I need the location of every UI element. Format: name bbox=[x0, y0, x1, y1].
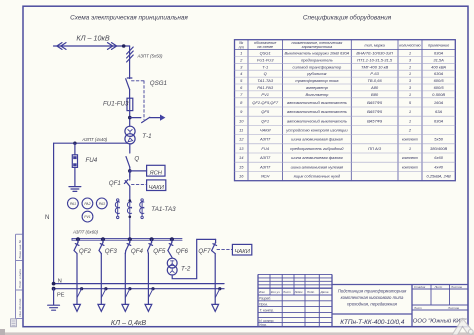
svg-text:КЛ – 0,4кВ: КЛ – 0,4кВ bbox=[111, 318, 147, 327]
svg-text:ЯСН: ЯСН bbox=[149, 170, 163, 176]
node QF3 bbox=[101, 237, 105, 241]
node QF6 bbox=[170, 237, 174, 241]
svg-text:РА1: РА1 bbox=[70, 202, 76, 206]
title block grid bbox=[258, 274, 468, 326]
switch Q bbox=[129, 144, 131, 153]
svg-text:Вольтметр: Вольтметр bbox=[305, 92, 329, 97]
svg-text:Подп.: Подп. bbox=[307, 290, 315, 294]
title block texts bbox=[259, 285, 462, 327]
row 13 FU4 bbox=[239, 146, 448, 151]
cable chevrons left bbox=[61, 43, 66, 50]
wire: FU4 to ground bbox=[74, 167, 76, 186]
svg-text:комплект: комплект bbox=[402, 156, 418, 160]
svg-text:Подстанция трансформаторная: Подстанция трансформаторная bbox=[338, 289, 407, 294]
watermark tile bottom-left bbox=[11, 319, 17, 327]
svg-text:РА1-РА3: РА1-РА3 bbox=[257, 85, 274, 90]
svg-text:силовой трансформатор: силовой трансформатор bbox=[293, 64, 342, 69]
svg-text:Пров.: Пров. bbox=[259, 303, 268, 307]
node QF4 bbox=[128, 237, 132, 241]
svg-text:400 кВА: 400 кВА bbox=[431, 64, 446, 69]
svg-text:FU4: FU4 bbox=[261, 146, 269, 151]
svg-text:ВА57Ф9: ВА57Ф9 bbox=[367, 118, 383, 123]
wire: QSG1 to fuse bbox=[129, 90, 131, 99]
svg-text:1: 1 bbox=[240, 51, 242, 56]
svg-text:5х50: 5х50 bbox=[434, 137, 443, 142]
breaker QF7 bbox=[215, 239, 217, 242]
feeder arrow 1 bbox=[74, 304, 81, 311]
svg-text:N: N bbox=[58, 279, 62, 285]
svg-text:1: 1 bbox=[409, 92, 411, 97]
svg-text:Т-1: Т-1 bbox=[142, 133, 151, 140]
svg-text:ЧАКИ: ЧАКИ bbox=[149, 185, 165, 191]
svg-text:комплект: комплект bbox=[402, 138, 418, 142]
PE tap feeder 4 bbox=[151, 287, 154, 290]
svg-text:4х40: 4х40 bbox=[434, 164, 443, 169]
svg-text:31,5А: 31,5А bbox=[433, 57, 444, 62]
circuit breaker QF1 bbox=[129, 171, 131, 180]
svg-text:ЯСН: ЯСН bbox=[260, 174, 270, 179]
svg-text:АЗПТ (4х40): АЗПТ (4х40) bbox=[81, 137, 107, 142]
svg-text:А80: А80 bbox=[370, 85, 379, 90]
left strip rotated labels bbox=[18, 239, 22, 316]
main ground bbox=[48, 304, 60, 306]
svg-text:ТА1-ТА3: ТА1-ТА3 bbox=[257, 78, 274, 83]
fuse FU4 bbox=[74, 143, 76, 155]
wire: 0.4kV branch АЗПТ (4х40) bbox=[54, 142, 128, 144]
svg-text:630А: 630А bbox=[434, 51, 444, 56]
svg-text:ящик собственных нужд: ящик собственных нужд bbox=[293, 174, 341, 179]
svg-text:1: 1 bbox=[409, 109, 411, 114]
svg-text:11: 11 bbox=[239, 128, 243, 133]
svg-text:АЗПТ (6х60): АЗПТ (6х60) bbox=[72, 230, 98, 235]
svg-text:Листов: Листов bbox=[450, 285, 462, 289]
box ЧАКИ (right) bbox=[232, 244, 251, 255]
svg-text:Т-2: Т-2 bbox=[181, 266, 191, 273]
row 14 АЗПТ bbox=[239, 155, 444, 160]
svg-text:1: 1 bbox=[409, 64, 411, 69]
svg-text:автоматический выключатель: автоматический выключатель bbox=[287, 118, 347, 123]
revision rows (upper-left) bbox=[258, 273, 332, 275]
QSG1 mechanical link (dashed) bbox=[132, 81, 145, 120]
svg-text:FU1-FU3: FU1-FU3 bbox=[103, 100, 129, 107]
PE tap feeder 2 bbox=[104, 287, 107, 290]
svg-text:ТВ-0,66: ТВ-0,66 bbox=[367, 78, 382, 83]
node: 10kV junction before T-1 bbox=[128, 116, 132, 120]
ammeter PA1 bbox=[68, 198, 79, 209]
row 6 PA1-PA3 bbox=[240, 85, 444, 90]
svg-text:Лист: Лист bbox=[282, 290, 291, 294]
svg-text:1: 1 bbox=[409, 118, 411, 123]
svg-text:Изм: Изм bbox=[259, 290, 265, 294]
wire: T-2 to QF7 riser bbox=[172, 239, 215, 278]
wire: PEN to ground bbox=[53, 289, 55, 305]
svg-text:ПП А/3: ПП А/3 bbox=[368, 146, 382, 151]
svg-text:шина алюминиевая фазная: шина алюминиевая фазная bbox=[291, 137, 343, 142]
svg-text:QF7: QF7 bbox=[198, 248, 211, 255]
wire: to ЯСН box bbox=[130, 170, 147, 172]
svg-text:Листов: Листов bbox=[447, 306, 459, 310]
row 7 PV1 bbox=[240, 92, 445, 97]
svg-text:автоматический выключатель: автоматический выключатель bbox=[287, 109, 347, 114]
svg-text:трансформатор тока: трансформатор тока bbox=[295, 78, 339, 83]
svg-text:проходная, передвижная: проходная, передвижная bbox=[347, 302, 398, 307]
svg-text:АЗПТ (5х50): АЗПТ (5х50) bbox=[137, 54, 163, 59]
svg-text:КЛ – 10кВ: КЛ – 10кВ bbox=[76, 33, 110, 42]
svg-text:ЧАКИ: ЧАКИ bbox=[235, 249, 251, 255]
row 9 QF6 bbox=[240, 109, 442, 114]
row 15 АЗПТ bbox=[239, 164, 444, 169]
breaker QF3 bbox=[102, 239, 104, 242]
svg-text:QF1: QF1 bbox=[261, 118, 269, 123]
specification table grid bbox=[235, 40, 456, 181]
svg-text:0-500В: 0-500В bbox=[432, 92, 445, 97]
svg-text:ВНА/ТЕ-10/630-3зП: ВНА/ТЕ-10/630-3зП bbox=[356, 51, 392, 56]
svg-text:QF1: QF1 bbox=[109, 180, 121, 187]
box ЯСН bbox=[147, 165, 165, 176]
svg-text:рубильник: рубильник bbox=[306, 71, 327, 76]
svg-text:15: 15 bbox=[239, 164, 244, 169]
svg-text:Q: Q bbox=[264, 71, 267, 76]
svg-text:630А: 630А bbox=[434, 118, 444, 123]
svg-text:амперметр: амперметр bbox=[306, 85, 329, 90]
box ЧАКИ bbox=[147, 180, 166, 191]
svg-text:630А: 630А bbox=[434, 71, 444, 76]
svg-text:Инв. № подл.: Инв. № подл. bbox=[18, 298, 22, 317]
feeder arrow 3 bbox=[122, 304, 129, 311]
ammeter PA3 bbox=[96, 198, 107, 209]
row 4 Q bbox=[240, 71, 444, 76]
ammeter PA2 bbox=[82, 198, 93, 209]
row 16 ЯСН bbox=[239, 174, 451, 179]
table rows text bbox=[239, 51, 451, 179]
svg-text:160А: 160А bbox=[434, 100, 444, 105]
svg-text:0,25кВА, 24В: 0,25кВА, 24В bbox=[426, 174, 451, 179]
node QF2 bbox=[76, 237, 80, 241]
busbar hatch АЗПТ (5х50) bbox=[127, 51, 134, 58]
svg-text:ЧАКИ: ЧАКИ bbox=[260, 128, 271, 133]
svg-text:Спецификация оборудования: Спецификация оборудования bbox=[303, 14, 392, 22]
svg-text:тип, марка: тип, марка bbox=[364, 43, 384, 47]
fuse FU1-FU3 bbox=[127, 98, 133, 110]
svg-text:Разраб.: Разраб. bbox=[259, 297, 271, 301]
svg-text:№док: №док bbox=[295, 290, 304, 294]
svg-text:6х60: 6х60 bbox=[434, 155, 443, 160]
row 3 T-1 bbox=[240, 64, 446, 69]
table header text bbox=[239, 41, 450, 49]
breaker QF4 bbox=[129, 239, 131, 242]
svg-text:КТПн-Т-КК-400-10/0,4: КТПн-Т-КК-400-10/0,4 bbox=[340, 319, 405, 326]
breaker QF5 bbox=[151, 239, 153, 242]
svg-text:ТА1-ТА3: ТА1-ТА3 bbox=[151, 206, 176, 213]
svg-text:Лист: Лист bbox=[434, 285, 443, 289]
node QF5 bbox=[150, 237, 154, 241]
svg-text:600/5: 600/5 bbox=[434, 78, 445, 83]
svg-text:устройство контроля изоляции: устройство контроля изоляции bbox=[285, 128, 348, 133]
node: junction to ЯСН bbox=[128, 169, 132, 173]
svg-text:12: 12 bbox=[239, 137, 244, 142]
schematic text labels bbox=[45, 33, 251, 327]
svg-text:QF5: QF5 bbox=[261, 109, 270, 114]
row 5 TA1-TA3 bbox=[240, 78, 444, 83]
svg-text:PV1: PV1 bbox=[84, 215, 91, 219]
svg-text:380/400В: 380/400В bbox=[430, 146, 447, 151]
QF7 link to ЧАКИ (dashed) bbox=[217, 249, 232, 251]
signature rows bbox=[258, 294, 332, 296]
svg-text:14: 14 bbox=[239, 155, 244, 160]
current transformers ТА1-ТА3 bbox=[115, 199, 144, 240]
svg-text:1: 1 bbox=[409, 71, 411, 76]
svg-text:на схеме: на схеме bbox=[257, 45, 273, 49]
bottom paper-edge shadow bbox=[4, 332, 474, 335]
row 11 ЧАКИ bbox=[239, 128, 412, 133]
0.4kV busbar АЗПТ (6х60) double line bbox=[72, 237, 182, 239]
svg-text:количество: количество bbox=[399, 43, 420, 47]
feeder arrow 4 bbox=[145, 304, 152, 311]
ground under FU4 bbox=[69, 186, 81, 188]
feeder arrow 5 bbox=[212, 304, 219, 311]
svg-text:63А: 63А bbox=[435, 109, 442, 114]
svg-text:Кол.уч: Кол.уч bbox=[271, 290, 280, 294]
transformer T-2 bbox=[167, 258, 177, 268]
transformer T-1 bbox=[125, 126, 135, 136]
svg-text:1: 1 bbox=[409, 146, 411, 151]
row 1 QSG1 bbox=[240, 51, 444, 56]
PE bus bbox=[54, 288, 224, 290]
feeder arrow 2 bbox=[98, 304, 105, 311]
svg-text:QF6: QF6 bbox=[176, 248, 189, 255]
svg-text:АЗПТ: АЗПТ bbox=[259, 155, 271, 160]
centre/right top edge bbox=[332, 284, 468, 286]
svg-text:ВА57Ф5: ВА57Ф5 bbox=[367, 100, 383, 105]
svg-text:FU4: FU4 bbox=[86, 157, 98, 164]
svg-text:АЗПТ: АЗПТ bbox=[259, 164, 271, 169]
watermark chevron bottom-right bbox=[452, 319, 473, 335]
svg-text:QSG1: QSG1 bbox=[260, 51, 271, 56]
svg-text:600/5: 600/5 bbox=[434, 85, 445, 90]
svg-text:комплектная киоскового типа: комплектная киоскового типа bbox=[341, 295, 404, 300]
svg-text:16: 16 bbox=[239, 174, 244, 179]
svg-text:ПТ1.1-10-31,5-31,5: ПТ1.1-10-31,5-31,5 bbox=[357, 57, 393, 62]
svg-text:РА3: РА3 bbox=[99, 202, 105, 206]
svg-text:шина алюминиевая фазная: шина алюминиевая фазная bbox=[291, 155, 343, 160]
svg-text:1: 1 bbox=[409, 51, 411, 56]
name/designation divider bbox=[332, 313, 412, 315]
project name text bbox=[338, 289, 407, 307]
svg-text:шина алюминиевая нулевая: шина алюминиевая нулевая bbox=[291, 164, 344, 169]
load-break switch QSG1 blade bbox=[126, 79, 130, 90]
cable chevrons right bbox=[108, 43, 113, 50]
svg-text:Стадия: Стадия bbox=[414, 285, 426, 289]
svg-text:Схема электрическая принципиал: Схема электрическая принципиальная bbox=[70, 15, 188, 22]
PE tap feeder 3 bbox=[128, 287, 131, 290]
row 10 QF1 bbox=[239, 118, 444, 123]
svg-text:ВА57Ф5: ВА57Ф5 bbox=[367, 109, 383, 114]
row 8 QF2-QF5,QF7 bbox=[240, 100, 444, 105]
PE tap feeder 1 bbox=[80, 287, 83, 290]
svg-text:FU1-FU3: FU1-FU3 bbox=[257, 57, 274, 62]
wire: 10kV drop to QSG1 bbox=[129, 46, 131, 79]
svg-text:QF2: QF2 bbox=[79, 248, 92, 255]
right section bbox=[411, 285, 413, 327]
N bus bbox=[54, 283, 224, 285]
svg-text:QF5: QF5 bbox=[153, 248, 166, 255]
svg-text:комплект: комплект bbox=[402, 165, 418, 169]
row 2 FU1-FU3 bbox=[239, 57, 444, 62]
svg-text:Выключатель нагрузки 10кВ 630А: Выключатель нагрузки 10кВ 630А bbox=[284, 51, 349, 56]
svg-text:N: N bbox=[45, 215, 49, 221]
svg-text:QF3: QF3 bbox=[105, 248, 118, 255]
voltmeter PV1 bbox=[82, 211, 93, 222]
wire: left N riser bbox=[53, 143, 55, 283]
svg-text:Q: Q bbox=[134, 156, 139, 163]
svg-text:В80: В80 bbox=[371, 92, 379, 97]
svg-text:QF2-QF5,QF7: QF2-QF5,QF7 bbox=[252, 100, 279, 105]
svg-text:Подп. и дата: Подп. и дата bbox=[18, 269, 22, 288]
svg-text:QF4: QF4 bbox=[131, 248, 144, 255]
svg-text:Р-63: Р-63 bbox=[370, 71, 379, 76]
svg-text:п/п: п/п bbox=[239, 45, 245, 49]
row 12 АЗПТ bbox=[239, 137, 444, 142]
wire: incoming 10kV cable line КЛ-10кВ bbox=[54, 45, 130, 47]
svg-text:10: 10 bbox=[239, 118, 244, 123]
breaker QF6 bbox=[171, 239, 173, 242]
svg-text:Лист: Лист bbox=[413, 306, 422, 310]
svg-text:Дата: Дата bbox=[320, 290, 329, 294]
svg-text:Взам. инв. №: Взам. инв. № bbox=[18, 239, 22, 258]
earthing switch branch with arrow bbox=[130, 117, 141, 119]
svg-text:QSG1: QSG1 bbox=[150, 80, 167, 87]
svg-text:Утв.: Утв. bbox=[259, 323, 267, 327]
svg-text:РА2: РА2 bbox=[84, 202, 90, 206]
svg-text:PV1: PV1 bbox=[261, 92, 269, 97]
svg-text:PE: PE bbox=[57, 292, 65, 298]
PE tap feeder 5 bbox=[218, 287, 221, 290]
svg-text:Т. контр.: Т. контр. bbox=[260, 308, 275, 312]
QF1 link to ЧАКИ (dashed) bbox=[132, 183, 147, 185]
breaker QF2 bbox=[77, 239, 79, 242]
svg-text:автоматический выключатель: автоматический выключатель bbox=[287, 100, 347, 105]
svg-text:13: 13 bbox=[239, 146, 244, 151]
svg-text:примечание: примечание bbox=[428, 43, 449, 47]
svg-text:Т-1: Т-1 bbox=[262, 64, 268, 69]
svg-text:предохранитель: предохранитель bbox=[301, 57, 333, 62]
left attribute strip bbox=[16, 234, 23, 326]
node: FU4 tap bbox=[73, 142, 76, 145]
svg-text:предохранитель гибридный: предохранитель гибридный bbox=[290, 146, 344, 151]
svg-text:АЗПТ: АЗПТ bbox=[259, 137, 271, 142]
node: junction on 10kV line bbox=[122, 44, 126, 48]
svg-text:характеристика: характеристика bbox=[301, 45, 333, 49]
svg-text:ТМГ-400 10 кВ: ТМГ-400 10 кВ bbox=[361, 64, 389, 69]
